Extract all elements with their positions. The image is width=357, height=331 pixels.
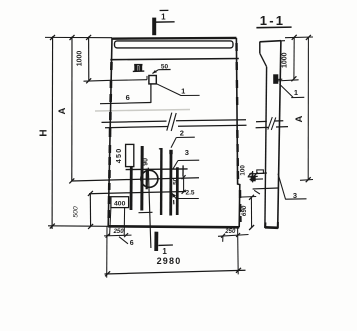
side view left edge upper — [259, 42, 261, 54]
leader 3 — [173, 161, 178, 170]
arrow 50 — [152, 70, 158, 74]
center line through circle to section mark — [148, 168, 151, 248]
anchor rect (450 detail) — [126, 144, 134, 166]
panel right edge — [236, 38, 239, 227]
loop tick right — [278, 78, 282, 80]
tick 250R b — [236, 233, 240, 237]
svg-text:1: 1 — [294, 88, 298, 97]
side view right edge — [278, 41, 281, 229]
plate detail lines (right edge of front view + side view) — [249, 173, 267, 174]
leader 1 (side view) — [280, 84, 294, 97]
leader 6 bottom — [119, 237, 128, 244]
tick 690 bottom — [249, 225, 254, 230]
extension 250R left — [222, 236, 224, 242]
svg-text:1000: 1000 — [76, 51, 83, 67]
svg-text:A: A — [57, 107, 68, 114]
svg-text:3: 3 — [293, 191, 297, 200]
section mark top: thick bar — [152, 18, 156, 36]
faint scan streak — [95, 110, 190, 112]
dim line 1000 (left) — [88, 37, 90, 81]
bar L1 top hook — [159, 148, 162, 150]
horizontal line H1 — [126, 168, 188, 171]
svg-text:690: 690 — [241, 205, 248, 216]
dim line 1000 (right) — [293, 37, 295, 79]
extension vertical right (to 2980) — [237, 227, 240, 274]
side view chamfer — [260, 53, 267, 66]
tick near centerline bottom — [139, 211, 153, 213]
dim line A (right) — [307, 37, 309, 179]
side view break zigzag — [268, 117, 273, 130]
bar L2 top blob — [169, 150, 172, 154]
extension 690 top — [240, 196, 257, 199]
leader 1 (front view) — [156, 84, 181, 96]
svg-text:6: 6 — [126, 93, 130, 102]
circle (washer) — [141, 170, 158, 187]
svg-text:A: A — [294, 116, 305, 123]
panel bottom edge — [108, 226, 239, 227]
slash tick b (plate dim) — [254, 172, 257, 176]
tick 50 top — [182, 175, 186, 179]
svg-text:6: 6 — [130, 240, 134, 247]
vertical line below plate — [150, 84, 152, 103]
svg-text:2: 2 — [180, 129, 184, 138]
slash tick a (plate dim) — [248, 173, 251, 177]
dim line H — [51, 36, 54, 229]
underline 6 — [100, 103, 151, 104]
bar B1 — [130, 167, 133, 210]
svg-text:1: 1 — [161, 12, 166, 21]
top band groove — [115, 41, 234, 48]
tick 1000R top — [292, 35, 297, 40]
extension vertical left (to 2980) — [106, 226, 108, 277]
break line lower — [105, 125, 247, 127]
side view ext to 1000 dim — [281, 40, 285, 42]
dim line 250 right — [218, 235, 249, 237]
svg-text:50: 50 — [172, 177, 179, 185]
dim line A (left) — [71, 37, 73, 182]
bar L1 (long) — [160, 148, 163, 215]
small tick between bars — [173, 200, 175, 204]
dim line 690 — [250, 197, 252, 227]
section mark bottom: thick bar — [154, 232, 158, 251]
dim line 50 vertical — [183, 177, 185, 192]
side view left edge — [265, 67, 267, 228]
bar B2 — [140, 146, 143, 211]
underline 2 — [176, 136, 195, 138]
extension 1000R bottom — [278, 80, 299, 81]
side view bottom cap left — [264, 223, 266, 229]
extension 1000 bottom — [84, 79, 112, 82]
dim line 250 left — [104, 234, 132, 237]
plus cross — [252, 171, 254, 182]
underline 50 — [159, 69, 171, 71]
small tick below — [254, 190, 260, 194]
underline 3 — [178, 159, 199, 161]
small rect on side view edge — [257, 170, 264, 174]
panel top edge — [112, 37, 237, 40]
tick H top — [50, 35, 55, 40]
tick A bottom — [69, 178, 74, 183]
tick 1000 top — [86, 35, 91, 40]
section mark top: overline — [160, 9, 169, 11]
horizontal line below band — [110, 59, 239, 60]
section mark bottom: arm — [158, 244, 173, 246]
svg-text:450: 450 — [114, 148, 123, 164]
tick 2980 left — [105, 271, 110, 276]
extension line bottom-left — [48, 225, 109, 228]
tick 250L b — [124, 233, 128, 237]
horizontal line H2 (through circle, to A dim) — [72, 178, 199, 181]
break zigzag — [167, 113, 172, 131]
panel left edge — [108, 38, 112, 226]
extension AR bottom — [300, 179, 313, 182]
right edge dash marks — [237, 43, 241, 222]
tick 250R a — [221, 234, 225, 238]
horizontal line H3 — [89, 192, 186, 194]
extension line top right (A dim) — [285, 36, 313, 39]
bar B3 — [176, 167, 179, 215]
svg-text:250: 250 — [224, 229, 236, 235]
svg-text:1: 1 — [162, 247, 167, 256]
embed plate (top detail) — [149, 76, 156, 84]
break line upper — [102, 120, 247, 123]
tick H bottom — [50, 224, 55, 229]
section mark top: arm — [156, 21, 175, 23]
tick 690 top — [249, 195, 254, 200]
svg-text:2.5: 2.5 — [185, 190, 194, 197]
tick A top — [70, 35, 75, 40]
side view break line upper — [256, 121, 283, 122]
tick 50 bottom — [182, 190, 186, 194]
tick AR bottom — [306, 177, 311, 182]
svg-text:100: 100 — [239, 165, 246, 176]
svg-text:250: 250 — [113, 229, 125, 235]
side view top edge — [260, 41, 281, 42]
dim line 2980 — [105, 270, 246, 274]
tick 500 top — [88, 191, 93, 196]
tick 250L a — [106, 234, 110, 238]
svg-text:1-1: 1-1 — [260, 13, 285, 28]
loop blob on side view — [273, 74, 278, 84]
leader 2.5 arrow — [172, 193, 176, 198]
bolt blob — [251, 176, 256, 182]
side view bottom edge — [265, 226, 278, 229]
svg-text:400: 400 — [114, 200, 126, 207]
cross vertical (weld mark) — [182, 165, 184, 176]
svg-text:H: H — [39, 129, 50, 136]
svg-text:90: 90 — [143, 158, 150, 166]
svg-text:500: 500 — [72, 206, 79, 218]
title underline — [256, 26, 291, 29]
side view bottom cap right — [277, 222, 279, 229]
svg-text:3: 3 — [185, 148, 189, 157]
tick 2980 right — [236, 268, 241, 273]
lifting loop icon (top detail) — [133, 65, 145, 72]
plate line lower (side) — [253, 188, 278, 189]
box 400 — [111, 197, 129, 208]
leader 2.5 tail — [176, 198, 199, 200]
leader 2 — [171, 138, 176, 148]
extension line top (left dims) — [45, 36, 112, 38]
tick AR top — [306, 35, 311, 40]
tick 500 bottom — [88, 224, 93, 229]
svg-text:2980: 2980 — [157, 256, 182, 266]
extension from box right — [123, 208, 125, 236]
leader line to plate — [111, 79, 147, 82]
extension from box left — [110, 208, 111, 236]
svg-text:1000: 1000 — [282, 52, 289, 68]
svg-text:1: 1 — [181, 87, 185, 96]
side view break line lower — [256, 127, 288, 128]
dim line 500 (left) — [89, 193, 91, 226]
bar L2 (long) — [169, 150, 172, 216]
leader 3 (side view) — [278, 174, 286, 200]
anchor rod inside circle — [146, 169, 148, 190]
left edge dash marks — [109, 62, 112, 218]
tick 1000R bottom — [291, 76, 296, 81]
tick 1000 bottom — [86, 78, 91, 83]
tick up at leader end — [146, 76, 148, 80]
